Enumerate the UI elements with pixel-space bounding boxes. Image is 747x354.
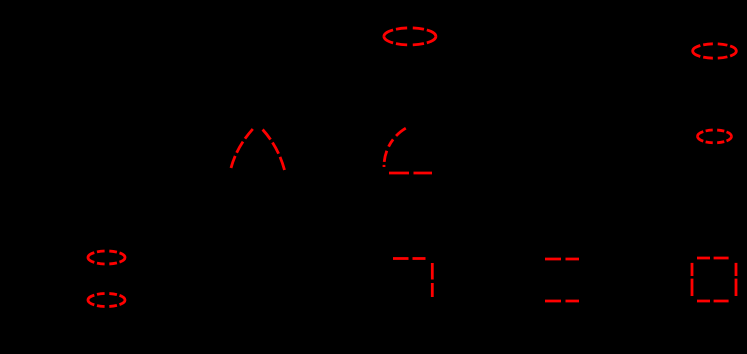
wire : dashed arch right leg (tent peak highlight) xyxy=(263,130,285,171)
wire : dashed segment lower (double-bar highlight) xyxy=(545,300,579,303)
wire : dashed corner vertical segment xyxy=(431,263,434,297)
wire : dashed baseline under arc xyxy=(389,172,432,175)
wire : dashed segment upper (double-bar highlight) xyxy=(545,258,579,261)
wire : dashed corner horizontal segment xyxy=(393,257,426,260)
node E : dashed highlight ellipse (left lower) xyxy=(88,294,125,307)
node C : dashed highlight ellipse (middle right) xyxy=(698,130,732,143)
node D : dashed highlight ellipse (left upper) xyxy=(88,251,125,264)
wire : dashed arch left leg (tent peak highlight) xyxy=(231,129,253,168)
node A : dashed highlight ellipse (top middle) xyxy=(384,28,436,45)
wire : dashed quarter-arc (angle highlight) xyxy=(384,128,406,167)
node F : dashed highlight square (bottom right) xyxy=(692,258,736,301)
node B : dashed highlight ellipse (top right) xyxy=(693,44,737,58)
